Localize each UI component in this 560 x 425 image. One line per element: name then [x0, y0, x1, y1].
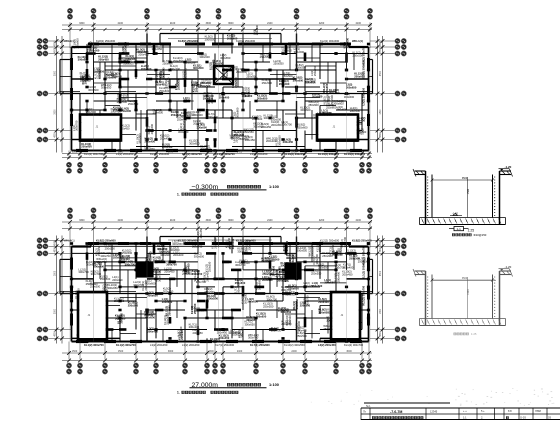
svg-text:250x600: 250x600: [121, 109, 132, 113]
svg-text:3000: 3000: [168, 350, 174, 353]
svg-text:250x500: 250x500: [264, 259, 275, 263]
svg-text:200x400: 200x400: [173, 253, 184, 257]
svg-text:300x600: 300x600: [345, 37, 349, 48]
svg-text:250x600: 250x600: [339, 245, 343, 256]
svg-text:300x600: 300x600: [293, 78, 304, 82]
svg-text:200x450: 200x450: [285, 240, 289, 251]
svg-text:250x500: 250x500: [305, 80, 316, 84]
svg-text:250x600: 250x600: [106, 76, 117, 80]
svg-text:300x600: 300x600: [252, 117, 263, 121]
svg-text:300x600: 300x600: [204, 94, 215, 98]
svg-text:4500: 4500: [55, 247, 57, 253]
svg-text:200x450: 200x450: [271, 123, 282, 127]
svg-text:250x600: 250x600: [137, 261, 141, 272]
svg-text:250x550: 250x550: [295, 298, 299, 309]
svg-text:G-03: G-03: [520, 416, 526, 420]
svg-text:KL8(2) 250x600: KL8(2) 250x600: [96, 39, 116, 43]
svg-text:200x450: 200x450: [187, 263, 191, 274]
svg-text:200x450: 200x450: [184, 68, 188, 79]
svg-text:KL8(2) 250x600: KL8(2) 250x600: [236, 39, 256, 43]
svg-text:4500: 4500: [55, 47, 57, 53]
svg-text:200x400: 200x400: [325, 94, 329, 105]
svg-text:300x600: 300x600: [285, 293, 296, 297]
svg-text:78b8: 78b8: [535, 409, 541, 413]
svg-text:250x500: 250x500: [100, 277, 111, 281]
svg-text:300x700: 300x700: [271, 329, 282, 333]
svg-text:2100: 2100: [267, 219, 273, 222]
svg-text:KL7(1) 250x600: KL7(1) 250x600: [215, 343, 235, 347]
svg-text:300x700: 300x700: [170, 67, 181, 71]
svg-text:250x550: 250x550: [204, 290, 215, 294]
svg-text:1800: 1800: [380, 41, 382, 47]
svg-text:3900: 3900: [55, 70, 57, 76]
svg-text:300x700: 300x700: [178, 130, 189, 134]
svg-text:250x550: 250x550: [318, 265, 329, 269]
svg-text:-1.80: -1.80: [452, 211, 458, 215]
svg-text:250x550: 250x550: [260, 55, 271, 59]
svg-text:L3(2) 200x450: L3(2) 200x450: [362, 87, 366, 105]
svg-text:2100: 2100: [356, 22, 362, 25]
svg-text:300x650: 300x650: [247, 300, 258, 304]
svg-text:300x700: 300x700: [183, 99, 194, 103]
svg-text:250x500: 250x500: [200, 84, 211, 88]
svg-text:300x700: 300x700: [281, 288, 292, 292]
svg-text:200x400: 200x400: [119, 257, 130, 261]
svg-text:250x500: 250x500: [234, 77, 238, 88]
svg-text:200x400: 200x400: [141, 67, 152, 71]
svg-text:300x600: 300x600: [235, 107, 239, 118]
svg-text:200x450: 200x450: [147, 329, 158, 333]
svg-text:250x600: 250x600: [75, 38, 79, 49]
svg-text:250x600: 250x600: [153, 111, 164, 115]
svg-text:250x500: 250x500: [213, 238, 217, 249]
svg-text:KL1(2) 300x700: KL1(2) 300x700: [362, 285, 366, 305]
svg-text:4500: 4500: [380, 70, 382, 76]
svg-text:300x600: 300x600: [286, 256, 297, 260]
svg-text:250x600: 250x600: [81, 145, 92, 149]
svg-text:300x700: 300x700: [235, 263, 246, 267]
svg-text:2100: 2100: [267, 22, 273, 25]
svg-text:4500: 4500: [55, 240, 57, 246]
svg-text:-1.20: -1.20: [505, 265, 512, 269]
svg-text:200x400: 200x400: [266, 139, 277, 143]
svg-text:250x500: 250x500: [114, 299, 125, 303]
svg-text:200x450: 200x450: [167, 305, 171, 316]
svg-text:4500: 4500: [380, 132, 382, 138]
svg-text:250x500: 250x500: [329, 91, 340, 95]
svg-text:250x550: 250x550: [243, 130, 254, 134]
svg-text:300x650: 300x650: [281, 264, 292, 268]
svg-text:200x450: 200x450: [145, 139, 156, 143]
svg-text:250x600: 250x600: [297, 126, 308, 130]
svg-text:300x650: 300x650: [304, 284, 315, 288]
svg-text:4200: 4200: [319, 22, 325, 25]
svg-text:250x500: 250x500: [311, 271, 322, 275]
svg-text:3300: 3300: [79, 22, 85, 25]
svg-text:300x650: 300x650: [172, 242, 183, 246]
svg-text:300x600: 300x600: [318, 310, 329, 314]
svg-text:300x700: 300x700: [305, 295, 309, 306]
svg-text:250x500: 250x500: [128, 102, 139, 106]
svg-text:3300: 3300: [206, 22, 212, 25]
svg-text:200x450: 200x450: [271, 265, 275, 276]
svg-text:3500: 3500: [462, 277, 468, 280]
svg-text:200x450: 200x450: [164, 270, 175, 274]
svg-text:300x650: 300x650: [161, 69, 165, 80]
svg-text:250x500: 250x500: [117, 100, 128, 104]
svg-text:SJ-: SJ-: [366, 404, 371, 408]
svg-text:300x700: 300x700: [315, 254, 319, 265]
svg-text:300x700: 300x700: [267, 297, 278, 301]
svg-text:KL1(2) 300x700: KL1(2) 300x700: [362, 259, 366, 279]
svg-text:200x400: 200x400: [180, 329, 184, 340]
svg-text:1:25: 1:25: [471, 332, 477, 336]
svg-text:200x450: 200x450: [98, 58, 109, 62]
svg-text:KL8(2) 250x600: KL8(2) 250x600: [96, 238, 116, 242]
svg-text:2100: 2100: [170, 22, 176, 25]
svg-text:250x550: 250x550: [246, 74, 257, 78]
svg-text:300x650: 300x650: [244, 322, 255, 326]
svg-text:300x700: 300x700: [282, 123, 293, 127]
svg-text:-7.6-7M: -7.6-7M: [390, 410, 402, 414]
svg-text:5 +: 5 +: [481, 409, 485, 413]
svg-text:200x450: 200x450: [278, 309, 289, 313]
svg-text:250x600: 250x600: [281, 48, 292, 52]
svg-text:KL2(2) 300x600: KL2(2) 300x600: [178, 238, 198, 242]
svg-text:300x700: 300x700: [78, 270, 89, 274]
svg-text:L3(2) 200x450: L3(2) 200x450: [318, 343, 336, 347]
svg-text:250x550: 250x550: [205, 37, 216, 41]
svg-text:+ +: + +: [463, 410, 467, 413]
svg-text:250x600: 250x600: [308, 103, 319, 107]
svg-text:200x400: 200x400: [194, 81, 198, 92]
svg-text:1-1: 1-1: [457, 227, 462, 231]
svg-text:KL2(2) 300x600: KL2(2) 300x600: [236, 238, 256, 242]
svg-text:KL1(2) 300x700: KL1(2) 300x700: [215, 152, 235, 156]
svg-text:200x450: 200x450: [112, 278, 123, 282]
svg-text:300x700: 300x700: [248, 336, 259, 340]
svg-text:3000: 3000: [346, 151, 352, 154]
svg-text:1.: 1.: [177, 391, 180, 395]
svg-text:4500: 4500: [380, 331, 382, 337]
svg-text:250x500: 250x500: [123, 61, 134, 65]
svg-text:3900: 3900: [55, 270, 57, 276]
svg-text:2100: 2100: [170, 219, 176, 222]
svg-text:250x550: 250x550: [173, 59, 184, 63]
svg-text:200x450: 200x450: [219, 336, 230, 340]
svg-text:250x500: 250x500: [288, 315, 292, 326]
svg-text:250x500: 250x500: [177, 79, 181, 90]
svg-text:200x400: 200x400: [208, 115, 219, 119]
svg-text:250x500: 250x500: [262, 81, 273, 85]
svg-text:250x500: 250x500: [162, 145, 173, 149]
svg-text:300x600: 300x600: [160, 253, 171, 257]
svg-text:300x600: 300x600: [300, 108, 311, 112]
svg-text:300x700: 300x700: [166, 262, 177, 266]
svg-text:L3(2) 200x450: L3(2) 200x450: [182, 343, 200, 347]
svg-text:3600: 3600: [228, 219, 234, 222]
svg-text:300x650: 300x650: [346, 85, 357, 89]
svg-text:2400: 2400: [237, 151, 243, 154]
svg-text:3000: 3000: [346, 350, 352, 353]
svg-text:300x700: 300x700: [277, 278, 288, 282]
svg-text:300x650: 300x650: [264, 116, 275, 120]
svg-text:2400: 2400: [291, 350, 297, 353]
svg-text:3300: 3300: [208, 350, 214, 353]
svg-text:300x650: 300x650: [193, 66, 204, 70]
svg-text:KL1(2) 300x700: KL1(2) 300x700: [84, 152, 104, 156]
svg-text:300x650: 300x650: [277, 135, 281, 146]
svg-text:KL1(2) 300x700: KL1(2) 300x700: [362, 59, 366, 79]
svg-text:300x600: 300x600: [78, 58, 89, 62]
svg-text:1500: 1500: [72, 350, 78, 353]
svg-text:300x600: 300x600: [138, 133, 142, 144]
svg-text:4500: 4500: [55, 41, 57, 47]
svg-text:KL2(2) 300x600: KL2(2) 300x600: [320, 238, 340, 242]
svg-text:300x600: 300x600: [344, 95, 355, 99]
svg-text:300x650: 300x650: [189, 142, 200, 146]
svg-text:200x400: 200x400: [211, 59, 215, 70]
svg-text:KL10(2) 300x550: KL10(2) 300x550: [284, 343, 305, 347]
svg-text:L3(2) 200x450: L3(2) 200x450: [250, 152, 268, 156]
svg-text:3300: 3300: [79, 219, 85, 222]
svg-text:200x450: 200x450: [138, 53, 149, 57]
svg-text:KL1(2) 300x700: KL1(2) 300x700: [84, 343, 104, 347]
svg-text:300x600: 300x600: [181, 114, 192, 118]
svg-text:1:25: 1:25: [468, 228, 475, 232]
svg-text:4500: 4500: [55, 132, 57, 138]
svg-text:300x600: 300x600: [257, 279, 261, 290]
svg-text:KL2(2) 300x600: KL2(2) 300x600: [320, 39, 340, 43]
svg-text:300x600: 300x600: [310, 246, 314, 257]
svg-text:1800: 1800: [380, 47, 382, 53]
svg-text:200x400: 200x400: [150, 124, 154, 135]
svg-text:200x400: 200x400: [236, 70, 247, 74]
svg-text:300x650: 300x650: [147, 293, 158, 297]
svg-text:KL1(2) 300x700: KL1(2) 300x700: [344, 343, 364, 347]
svg-text:2.: 2.: [481, 416, 483, 420]
svg-text:200x450: 200x450: [342, 272, 353, 276]
svg-text:250x550: 250x550: [318, 241, 322, 252]
svg-text:8 8: 8 8: [508, 409, 512, 413]
svg-text:250x600: 250x600: [337, 108, 348, 112]
svg-text:300x650: 300x650: [257, 96, 268, 100]
svg-text:3300: 3300: [206, 219, 212, 222]
svg-text:250x600: 250x600: [80, 78, 91, 82]
svg-text:250x550: 250x550: [147, 254, 151, 265]
svg-text:200x400: 200x400: [318, 300, 329, 304]
svg-text:300x650: 300x650: [144, 147, 155, 151]
svg-text:2100: 2100: [118, 22, 124, 25]
svg-text:1800: 1800: [380, 109, 382, 115]
svg-text:300x650: 300x650: [256, 314, 267, 318]
svg-text:4500: 4500: [380, 270, 382, 276]
svg-text:300x650: 300x650: [201, 80, 212, 84]
svg-text:300x650: 300x650: [220, 56, 231, 60]
svg-text:1800: 1800: [380, 247, 382, 253]
svg-text:-1.20: -1.20: [505, 165, 512, 169]
svg-text:250x550: 250x550: [313, 65, 317, 76]
svg-text:200x450: 200x450: [283, 140, 294, 144]
svg-text:300x700: 300x700: [119, 313, 123, 324]
svg-text:250x550: 250x550: [105, 246, 116, 250]
svg-text:300x600: 300x600: [231, 238, 235, 249]
svg-text:200x450: 200x450: [240, 327, 244, 338]
svg-text:200x400: 200x400: [312, 95, 323, 99]
svg-text:300x650: 300x650: [242, 94, 253, 98]
svg-text:300x650: 300x650: [163, 289, 174, 293]
svg-text:200x450: 200x450: [236, 283, 240, 294]
svg-text:250x500: 250x500: [89, 49, 100, 53]
svg-text:200x400: 200x400: [126, 57, 137, 61]
svg-text:2100: 2100: [356, 219, 362, 222]
svg-text:200x400: 200x400: [279, 82, 290, 86]
svg-text:3900: 3900: [55, 109, 57, 115]
svg-text:300x650: 300x650: [144, 313, 155, 317]
svg-text:2100: 2100: [118, 219, 124, 222]
svg-text:300x600: 300x600: [86, 263, 97, 267]
svg-text:200x400: 200x400: [336, 272, 340, 283]
svg-text:L3(2) 200x450: L3(2) 200x450: [150, 343, 168, 347]
svg-text:300x700: 300x700: [125, 262, 136, 266]
svg-text:4500: 4500: [55, 331, 57, 337]
svg-text:250x500: 250x500: [90, 284, 101, 288]
svg-text:300x650: 300x650: [162, 300, 173, 304]
svg-text:250x600: 250x600: [124, 42, 128, 53]
svg-text:250x550: 250x550: [263, 304, 274, 308]
svg-text:3600: 3600: [228, 22, 234, 25]
svg-text:250x550: 250x550: [295, 66, 306, 70]
svg-text:300x650: 300x650: [325, 83, 329, 94]
svg-text:KL1(2) 300x700: KL1(2) 300x700: [116, 343, 136, 347]
svg-text:250x500: 250x500: [282, 74, 293, 78]
svg-text:250x500: 250x500: [151, 269, 162, 273]
svg-text:12345: 12345: [430, 410, 438, 414]
svg-text:1:100: 1:100: [269, 184, 279, 189]
svg-text:1:100: 1:100: [269, 382, 279, 387]
svg-text:3500: 3500: [462, 177, 468, 180]
svg-text:250x600: 250x600: [162, 62, 173, 66]
svg-text:300x700: 300x700: [75, 120, 79, 131]
svg-text:300x600: 300x600: [199, 55, 210, 59]
svg-text:250x500: 250x500: [153, 258, 164, 262]
svg-text:250x600: 250x600: [235, 281, 246, 285]
svg-text:1500: 1500: [72, 151, 78, 154]
svg-text:250x600: 250x600: [177, 118, 188, 122]
svg-text:300x600: 300x600: [294, 50, 305, 54]
svg-text:4200: 4200: [319, 219, 325, 222]
svg-text:200x400: 200x400: [219, 95, 230, 99]
svg-text:200x400: 200x400: [296, 329, 307, 333]
svg-text:KL8(2) 250x600: KL8(2) 250x600: [352, 238, 372, 242]
svg-text:3000: 3000: [168, 151, 174, 154]
svg-text:300x700: 300x700: [192, 245, 203, 249]
svg-text:200x450: 200x450: [194, 309, 205, 313]
svg-text:200x400: 200x400: [350, 109, 361, 113]
svg-text:250x500: 250x500: [208, 297, 219, 301]
svg-text:1500: 1500: [467, 289, 470, 295]
svg-text:300x650: 300x650: [101, 86, 112, 90]
svg-text:250x500: 250x500: [128, 303, 139, 307]
svg-text:250x600: 250x600: [159, 89, 170, 93]
svg-text:300x600: 300x600: [194, 255, 205, 259]
svg-text:200x450: 200x450: [111, 110, 122, 114]
svg-text:300x600: 300x600: [253, 125, 264, 129]
svg-text:WKL1(1): WKL1(1): [352, 39, 363, 43]
svg-text:250x550: 250x550: [207, 261, 211, 272]
svg-text:300x650: 300x650: [94, 69, 105, 73]
svg-text:250x500: 250x500: [296, 334, 307, 338]
svg-text:3300: 3300: [208, 151, 214, 154]
svg-text:3900: 3900: [55, 308, 57, 314]
svg-text:KL8(2) 250x600: KL8(2) 250x600: [178, 39, 198, 43]
svg-text:1.: 1.: [177, 192, 180, 196]
svg-text:300x650: 300x650: [331, 245, 335, 256]
svg-text:2400: 2400: [291, 151, 297, 154]
svg-text:300x650: 300x650: [297, 249, 308, 253]
svg-text:1500: 1500: [467, 188, 470, 194]
svg-text:2400: 2400: [237, 350, 243, 353]
svg-text:1500: 1500: [118, 151, 124, 154]
svg-text:200x400: 200x400: [262, 278, 273, 282]
svg-text:250x500: 250x500: [117, 95, 128, 99]
svg-text:KL7(1) 250x600: KL7(1) 250x600: [250, 343, 270, 347]
svg-text:300x650: 300x650: [107, 286, 118, 290]
svg-text:300x700: 300x700: [96, 260, 107, 264]
svg-text:KL7(1) 250x600: KL7(1) 250x600: [150, 152, 170, 156]
svg-text:1:1: 1:1: [463, 416, 467, 420]
svg-text:1800: 1800: [380, 240, 382, 246]
svg-text:250x550: 250x550: [273, 62, 284, 66]
svg-text:1800: 1800: [380, 308, 382, 314]
svg-text:Φ10@150: Φ10@150: [474, 233, 487, 237]
svg-text:300x650: 300x650: [152, 47, 163, 51]
svg-text:200x400: 200x400: [343, 265, 354, 269]
svg-text:1500: 1500: [118, 350, 124, 353]
svg-text:200x450: 200x450: [199, 228, 203, 239]
svg-text:200x450: 200x450: [160, 136, 171, 140]
